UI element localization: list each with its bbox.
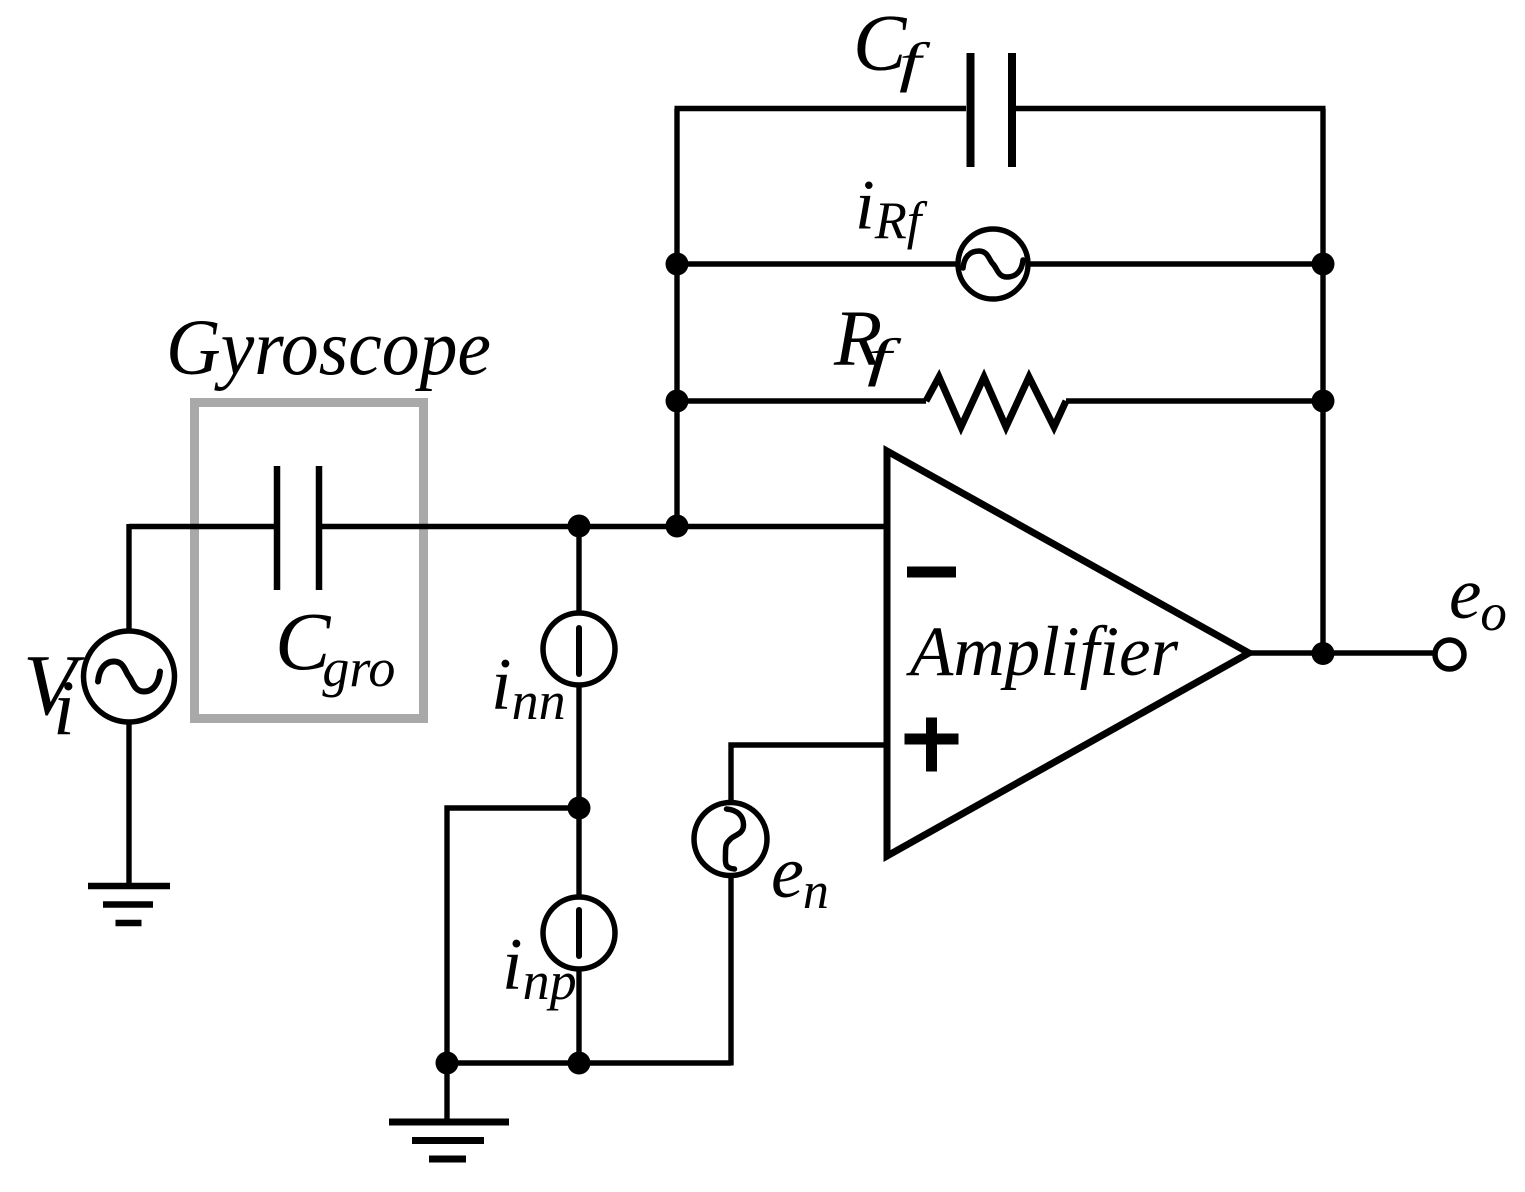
wire inp top bbox=[576, 808, 581, 898]
wire iRf row right bbox=[1028, 261, 1323, 266]
source iRf sine bbox=[963, 251, 1023, 277]
op-amp plus sign bbox=[905, 718, 959, 772]
wire inp bottom bbox=[576, 968, 581, 1063]
wire iRf row left bbox=[677, 261, 958, 266]
node dot input at feedback bbox=[666, 515, 689, 538]
svg-text:Gyroscope: Gyroscope bbox=[166, 305, 491, 392]
source Vi circle bbox=[84, 631, 175, 722]
wire inn top bbox=[576, 526, 581, 614]
wire top horizontal to Cf left plate bbox=[675, 106, 967, 111]
node dot bottom left bbox=[436, 1052, 459, 1075]
wire inverting input bbox=[129, 524, 887, 529]
wire Vi top bbox=[126, 524, 131, 632]
node dot input at inn bbox=[568, 515, 591, 538]
node dot inn-inp bbox=[568, 797, 591, 820]
node dot iRf left bbox=[666, 253, 689, 276]
wire right feedback vertical bbox=[1320, 109, 1325, 654]
source en circle bbox=[694, 803, 767, 876]
wire en bottom bbox=[728, 876, 733, 1066]
node dot bottom inp bbox=[568, 1052, 591, 1075]
source en sine vertical bbox=[725, 809, 743, 869]
ground under Vi bbox=[88, 886, 170, 923]
wire Rf row left bbox=[677, 398, 926, 403]
op-amp U1 Amplifier triangle bbox=[887, 451, 1249, 856]
resistor Rf bbox=[926, 377, 1066, 427]
node dot output bbox=[1312, 642, 1335, 665]
gyroscope box bbox=[195, 403, 424, 719]
capacitor Cgro bbox=[277, 466, 319, 590]
wire en top to plus input bbox=[731, 745, 887, 803]
wire bottom rail bbox=[447, 1060, 731, 1065]
wire Cf right plate to right vertical bbox=[1016, 106, 1326, 111]
ground bottom bbox=[389, 1122, 509, 1159]
source Vi sine bbox=[98, 662, 160, 692]
source inn bar bbox=[576, 628, 582, 674]
wire inn bottom bbox=[576, 684, 581, 808]
svg-text:Amplifier: Amplifier bbox=[906, 613, 1179, 691]
node dot Rf left bbox=[666, 390, 689, 413]
wire node to left branch bbox=[447, 808, 579, 1063]
wire Vi bottom to ground bbox=[126, 721, 131, 886]
wire output bbox=[1249, 650, 1435, 655]
wire top feedback left vertical bbox=[674, 109, 679, 527]
capacitor Cf bbox=[971, 53, 1013, 167]
source inp bar bbox=[576, 910, 582, 956]
wire ground stem bottom bbox=[444, 1063, 449, 1122]
node dot Rf right bbox=[1312, 390, 1335, 413]
op-amp minus sign bbox=[907, 567, 956, 578]
source inn circle bbox=[543, 613, 615, 685]
source inp circle bbox=[543, 897, 615, 969]
node dot iRf right bbox=[1312, 253, 1335, 276]
wire Rf row right bbox=[1066, 398, 1323, 403]
source iRf circle bbox=[958, 229, 1028, 299]
terminal eo bbox=[1435, 640, 1464, 669]
